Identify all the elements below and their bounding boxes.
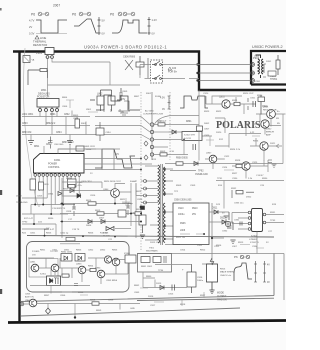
svg-text:C819 100p: C819 100p — [122, 203, 133, 205]
Q901 wiring — [256, 114, 286, 127]
transistor Q804 — [103, 189, 119, 198]
svg-text:R923: R923 — [204, 111, 210, 113]
svg-text:ASSY IN: ASSY IN — [25, 296, 34, 299]
secondary rect box — [173, 203, 209, 245]
svg-text:FUSE: FUSE — [155, 96, 161, 98]
labels below sub-board — [25, 294, 36, 302]
svg-text:R861 C861: R861 C861 — [141, 266, 153, 268]
transformer taps left — [145, 166, 158, 240]
diode D804 — [48, 192, 62, 196]
transformer T901 secondary winding — [163, 167, 165, 243]
bottom wires — [24, 304, 140, 318]
svg-text:TP94: TP94 — [158, 270, 164, 272]
svg-text:21.5V: 21.5V — [16, 196, 22, 198]
scope waveform W_B — [95, 149, 135, 170]
svg-text:4.7u: 4.7u — [78, 185, 83, 187]
svg-text:R931: R931 — [270, 212, 276, 214]
transistor Q853 — [76, 264, 86, 274]
transformer taps right wires — [165, 164, 215, 245]
svg-text:R803 1M: R803 1M — [22, 132, 31, 134]
svg-text:C924: C924 — [222, 167, 228, 169]
svg-text:C920: C920 — [203, 93, 209, 95]
svg-text:D801: D801 — [186, 121, 192, 123]
relay RL801 (dashed) — [151, 60, 164, 83]
small boxes on bus — [44, 235, 116, 241]
wires joining left — [206, 96, 283, 164]
svg-text:C922: C922 — [224, 156, 230, 158]
svg-text:C14 R7: C14 R7 — [256, 175, 264, 177]
diode D805 — [67, 187, 74, 193]
svg-text:D22: D22 — [38, 222, 43, 224]
left margin mark 2 — [0, 289, 2, 294]
svg-text:C27: C27 — [268, 231, 273, 233]
svg-text:R823: R823 — [136, 191, 142, 193]
transistor Q806 — [112, 258, 120, 266]
D905 diode on top wire — [170, 158, 208, 176]
svg-text:B+: B+ — [277, 111, 280, 113]
svg-text:C921: C921 — [250, 98, 256, 100]
right board small parts — [263, 64, 276, 77]
svg-text:C21: C21 — [108, 239, 113, 241]
TP91 wire — [216, 181, 284, 209]
left margin labels — [32, 251, 59, 256]
sub-board inner wires 2 — [28, 258, 125, 268]
svg-text:R916: R916 — [216, 245, 222, 247]
svg-text:R19: R19 — [272, 204, 277, 206]
svg-text:2V: 2V — [116, 153, 119, 156]
error amp Q904 — [253, 141, 276, 151]
cap C921 — [250, 98, 256, 108]
svg-text:R14: R14 — [218, 185, 223, 187]
labels MODE OUTPUT TRIG — [217, 293, 227, 302]
IC802 sub block — [154, 132, 202, 148]
capacitor C814 — [76, 146, 92, 151]
main board bottom thick edge — [8, 321, 286, 323]
resistor stack R813 — [30, 179, 49, 198]
svg-text:P6: P6 — [31, 13, 35, 17]
label TP1 — [16, 196, 66, 221]
svg-text:C812: C812 — [46, 144, 52, 146]
svg-text:2V: 2V — [90, 173, 93, 175]
Q902 wiring — [246, 124, 281, 136]
svg-text:OUTPUT: OUTPUT — [217, 296, 227, 298]
bus GND y238 — [27, 236, 274, 238]
diode D801 — [168, 121, 212, 136]
svg-text:R830: R830 — [48, 218, 54, 220]
svg-text:R826: R826 — [88, 232, 94, 234]
svg-text:C863: C863 — [134, 292, 140, 294]
svg-text:2V: 2V — [29, 25, 32, 29]
svg-text:R811: R811 — [34, 146, 40, 148]
svg-text:C804: C804 — [56, 132, 62, 134]
degauss wiring rows — [22, 112, 95, 141]
svg-text:TP93: TP93 — [270, 220, 276, 222]
Q901 labels — [263, 107, 280, 121]
svg-text:C18 TK: C18 TK — [72, 229, 80, 231]
svg-text:C933 10u: C933 10u — [234, 203, 244, 205]
bidirectional diode D808 — [103, 227, 131, 238]
bottom section inner line — [21, 308, 240, 316]
left margin dot — [0, 8, 2, 11]
svg-text:VA: VA — [32, 59, 35, 62]
IC901 output drop — [256, 232, 258, 254]
waveform W3 header P6 pins — [110, 12, 135, 16]
svg-text:R920 OVP: R920 OVP — [243, 93, 254, 95]
svg-text:C910: C910 — [178, 208, 184, 210]
svg-text:C852: C852 — [88, 250, 94, 252]
pin column P802 — [150, 92, 153, 160]
svg-text:CHECK ckt: CHECK ckt — [220, 274, 231, 277]
svg-text:R816: R816 — [86, 200, 92, 202]
svg-text:D856: D856 — [78, 292, 84, 294]
link wires to transformer pins — [62, 181, 144, 203]
svg-text:C809: C809 — [122, 91, 128, 93]
svg-text:R809: R809 — [160, 151, 166, 153]
svg-text:R930: R930 — [262, 178, 268, 180]
svg-text:C908 C909 L905: C908 C909 L905 — [174, 200, 192, 202]
transformer tap pins — [144, 180, 147, 205]
svg-text:R909: R909 — [176, 185, 182, 187]
svg-text:C17: C17 — [68, 219, 73, 221]
W_A side labels — [73, 115, 96, 148]
cap C932 (electrolytic) — [222, 221, 231, 232]
diode D853 — [64, 256, 82, 260]
svg-text:C806 R806: C806 R806 — [123, 56, 136, 59]
wire y73 — [199, 72, 251, 74]
svg-text:1000u: 1000u — [178, 214, 185, 216]
svg-text:C914: C914 — [180, 250, 186, 252]
svg-text:U903C POWER-2: U903C POWER-2 — [252, 45, 283, 49]
degauss block Z801 — [37, 89, 59, 112]
svg-text:TRIG ON: TRIG ON — [217, 299, 227, 301]
svg-text:C822 1p: C822 1p — [60, 232, 69, 234]
svg-text:C808: C808 — [73, 118, 79, 120]
resistor R921 — [232, 98, 248, 110]
vertical feed right — [198, 90, 200, 161]
svg-text:F802: F802 — [146, 93, 152, 95]
svg-text:C807: C807 — [204, 129, 210, 131]
wire y149 — [58, 111, 96, 150]
svg-text:P6: P6 — [72, 13, 76, 17]
svg-text:CONTROL: CONTROL — [48, 166, 60, 169]
svg-text:R822: R822 — [136, 209, 142, 211]
svg-text:AMP: AMP — [266, 134, 271, 137]
svg-text:R804: R804 — [62, 97, 68, 99]
svg-text:5V: 5V — [222, 213, 225, 215]
svg-text:IC851: IC851 — [40, 274, 47, 276]
svg-text:C810: C810 — [106, 132, 112, 134]
svg-text:U903A POWER-1 BOARD PD1012-: U903A POWER-1 BOARD PD1012-1 — [84, 44, 167, 49]
svg-text:Q853: Q853 — [76, 264, 82, 266]
svg-text:L78M05: L78M05 — [249, 239, 258, 241]
misc wire stubs (texture) — [62, 100, 264, 306]
line filter L802 — [90, 88, 130, 115]
vertical drop x212 to regulator — [212, 203, 224, 264]
svg-text:R5: R5 — [277, 123, 281, 125]
svg-text:C15 R829 TK: C15 R829 TK — [52, 208, 66, 210]
svg-text:C911: C911 — [197, 245, 203, 247]
svg-text:OVERLOAD: OVERLOAD — [195, 173, 208, 176]
transistor Q851 — [30, 262, 39, 272]
svg-text:4V: 4V — [267, 265, 270, 267]
Q804 wires — [115, 184, 132, 204]
svg-text:C855: C855 — [25, 294, 31, 296]
transistor Q903 — [219, 97, 230, 109]
connector P6 bottom — [20, 302, 24, 306]
svg-text:R913: R913 — [238, 242, 244, 244]
svg-text:C816: C816 — [90, 195, 96, 197]
wire bundle top-left — [48, 62, 141, 96]
transformer T901 primary winding — [158, 165, 160, 243]
scope waveform W_A — [96, 95, 140, 114]
svg-text:C932: C932 — [222, 231, 228, 233]
sub-board wires — [30, 263, 128, 286]
svg-text:D911: D911 — [212, 208, 218, 210]
svg-text:TP92: TP92 — [198, 171, 204, 173]
svg-text:Q902: Q902 — [266, 129, 272, 131]
svg-text:FOR B+: FOR B+ — [168, 71, 178, 74]
svg-text:R911 1W: R911 1W — [176, 237, 186, 239]
connector pins P904 — [251, 56, 260, 83]
left low wires — [22, 186, 79, 214]
hot-side sub frame — [29, 259, 58, 278]
ground diamond — [46, 308, 51, 314]
svg-text:0.3V: 0.3V — [29, 32, 35, 36]
svg-text:D809 C811: D809 C811 — [84, 146, 96, 148]
svg-text:D23: D23 — [216, 204, 221, 206]
transistor Q906 — [206, 153, 217, 163]
svg-text:R857: R857 — [44, 295, 50, 297]
sub-board top labels — [40, 250, 118, 252]
right margin vertical — [282, 114, 284, 164]
svg-text:D852: D852 — [100, 250, 106, 252]
transistor Q852 — [51, 264, 59, 272]
svg-text:R928: R928 — [235, 160, 241, 162]
svg-text:Q804: Q804 — [103, 189, 109, 191]
svg-text:R932: R932 — [231, 188, 237, 190]
svg-text:R855: R855 — [112, 250, 118, 252]
label right of IC — [270, 212, 276, 222]
svg-text:R858: R858 — [90, 300, 96, 302]
svg-text:R859: R859 — [96, 310, 102, 312]
shield dotted line left — [140, 92, 142, 250]
junction dot TP90 — [33, 223, 35, 225]
IC801 pin drops — [35, 176, 79, 214]
svg-text:Q851: Q851 — [30, 262, 36, 264]
svg-text:R912: R912 — [200, 250, 206, 252]
sub-board small parts — [54, 266, 118, 286]
cap C80 — [48, 137, 64, 149]
svg-text:R808 4.7: R808 4.7 — [157, 121, 167, 123]
Q904 wiring — [250, 138, 282, 161]
secondary diodes cluster right of box — [209, 208, 236, 244]
svg-text:D921: D921 — [270, 143, 276, 145]
svg-text:R17 0.47: R17 0.47 — [24, 218, 34, 220]
connector P801 on top edge — [36, 48, 54, 59]
svg-text:S-5741: S-5741 — [184, 138, 192, 140]
junction dots right edge — [196, 63, 198, 81]
shield dotted line right — [169, 92, 171, 160]
TP90 cluster — [22, 214, 56, 236]
svg-text:C851: C851 — [52, 250, 58, 252]
svg-text:R13: R13 — [152, 159, 157, 161]
opto coupler IC851 — [40, 268, 61, 294]
svg-text:L906: L906 — [180, 230, 186, 232]
svg-text:REGULATOR: REGULATOR — [263, 109, 277, 112]
svg-text:R22: R22 — [22, 233, 27, 235]
resistor R819 — [95, 209, 142, 217]
left margin mark 1 — [0, 190, 2, 195]
label row L801 — [22, 114, 70, 134]
svg-text:0V: 0V — [152, 32, 155, 36]
svg-text:T951: T951 — [254, 56, 260, 58]
svg-text:D920: D920 — [216, 132, 222, 134]
svg-text:R10: R10 — [45, 184, 50, 186]
svg-text:TP2: TP2 — [174, 191, 179, 193]
regulator R915 box — [207, 258, 235, 294]
svg-text:C10: C10 — [170, 151, 175, 153]
vertical rails — [62, 178, 136, 238]
Q905 wiring — [232, 160, 268, 179]
svg-text:C813: C813 — [37, 196, 43, 198]
labels right cluster — [203, 93, 254, 158]
label T901 — [146, 248, 158, 253]
svg-text:R910: R910 — [192, 208, 198, 210]
svg-text:GND: GND — [130, 308, 135, 310]
svg-text:L801 C801: L801 C801 — [22, 114, 34, 116]
svg-text:R805: R805 — [73, 115, 79, 117]
svg-text:C858: C858 — [108, 300, 114, 302]
svg-text:P6: P6 — [110, 13, 114, 17]
wire from P801 down — [48, 59, 111, 71]
transistor Q855 — [29, 299, 37, 307]
note A 100 FOR B+ — [168, 67, 178, 74]
arc wire to pin column — [153, 116, 199, 128]
svg-text:C915: C915 — [168, 294, 174, 296]
misc value labels (texture) — [44, 91, 277, 312]
svg-text:R807: R807 — [134, 96, 140, 98]
transistor Q902 — [261, 120, 281, 128]
transformer taps right junctions — [164, 168, 166, 240]
transformer T951 — [256, 55, 264, 78]
label row y180 — [66, 178, 138, 183]
page curl line — [23, 48, 40, 207]
right board labels — [254, 56, 272, 83]
warning: line thermal resistor note — [33, 36, 47, 47]
small parts row y160 — [236, 160, 276, 177]
svg-text:C820: C820 — [137, 199, 143, 201]
secondary extra labels — [176, 237, 238, 252]
diode D915 — [155, 283, 179, 296]
IC901 wiring right — [266, 215, 284, 223]
waveform W2 trace — [74, 17, 105, 36]
svg-text:R825: R825 — [46, 232, 52, 234]
svg-text:CONVERTER 120W: CONVERTER 120W — [143, 114, 164, 116]
svg-text:C26: C26 — [260, 185, 265, 187]
svg-text:D807: D807 — [99, 217, 105, 219]
wires bottom middle — [143, 264, 212, 288]
svg-text:ST-BY5V: ST-BY5V — [250, 242, 260, 244]
svg-text:MODE: MODE — [217, 293, 224, 295]
svg-text:R860: R860 — [146, 276, 152, 278]
svg-text:TP90: TP90 — [22, 222, 28, 224]
wire y190 — [60, 190, 111, 192]
svg-text:R18 1k: R18 1k — [100, 232, 108, 234]
Q902 labels — [266, 129, 274, 137]
svg-text:R920: R920 — [257, 95, 263, 97]
junction dots — [34, 204, 64, 216]
svg-text:C923: C923 — [204, 135, 210, 137]
svg-text:5V: 5V — [102, 19, 105, 23]
svg-text:D806: D806 — [86, 225, 92, 227]
resistor R920 — [257, 95, 265, 115]
junction in box — [203, 233, 205, 235]
svg-text:2067: 2067 — [53, 4, 60, 8]
svg-text:R924 2.2k: R924 2.2k — [230, 149, 241, 151]
label TP94 — [146, 270, 164, 278]
svg-text:C818: C818 — [66, 211, 72, 213]
svg-text:2.2k: 2.2k — [248, 178, 253, 180]
IC804 block — [124, 253, 136, 263]
cap C810 — [96, 122, 112, 141]
svg-text:C80 DEG: C80 DEG — [54, 144, 64, 146]
svg-text:0V: 0V — [267, 282, 270, 284]
svg-text:C806: C806 — [62, 106, 68, 108]
svg-text:T901: T901 — [149, 248, 155, 250]
svg-text:RESISTOR: RESISTOR — [33, 43, 47, 47]
wires degauss to center — [95, 117, 150, 140]
svg-text:C917: C917 — [150, 305, 156, 307]
svg-text:R853: R853 — [76, 250, 82, 252]
main board frame — [13, 52, 286, 322]
svg-text:Q907: Q907 — [206, 153, 212, 155]
svg-text:C856: C856 — [60, 295, 66, 297]
small box on right rail — [197, 123, 211, 131]
labels TP91 — [217, 178, 268, 180]
wire y213.5 — [60, 213, 141, 215]
box B parts — [141, 256, 166, 268]
svg-text:IC801: IC801 — [54, 159, 61, 162]
cap C819 — [122, 203, 133, 216]
small parts cluster right of P801 — [123, 56, 148, 79]
svg-text:C916: C916 — [197, 277, 203, 279]
IC801 right-side wires — [84, 159, 152, 170]
svg-text:C909: C909 — [190, 185, 196, 187]
resistor R816 — [86, 200, 96, 205]
svg-text:R862: R862 — [134, 285, 140, 287]
Q906 wires — [205, 159, 225, 169]
svg-text:R921: R921 — [232, 100, 238, 102]
svg-text:5V: 5V — [266, 242, 269, 244]
svg-text:D804: D804 — [48, 194, 54, 196]
svg-text:R802 2.2: R802 2.2 — [46, 123, 56, 125]
IC801 power control — [34, 154, 85, 177]
svg-text:1000u: 1000u — [197, 280, 204, 282]
diode D809 filled — [63, 185, 81, 198]
svg-text:15V: 15V — [32, 254, 36, 256]
svg-text:SW-TRANS: SW-TRANS — [146, 250, 158, 253]
IC901 wiring left — [232, 213, 248, 230]
sub-board outline — [27, 242, 130, 293]
wire y80 — [199, 80, 251, 82]
bus labels — [30, 229, 186, 252]
waveform W1 header P6 pins — [31, 4, 60, 17]
cap C916 — [182, 264, 204, 293]
svg-text:TH951: TH951 — [270, 78, 278, 81]
center cluster R808 — [154, 121, 199, 126]
svg-text:L802: L802 — [97, 93, 103, 96]
svg-text:4.7V: 4.7V — [29, 19, 35, 23]
